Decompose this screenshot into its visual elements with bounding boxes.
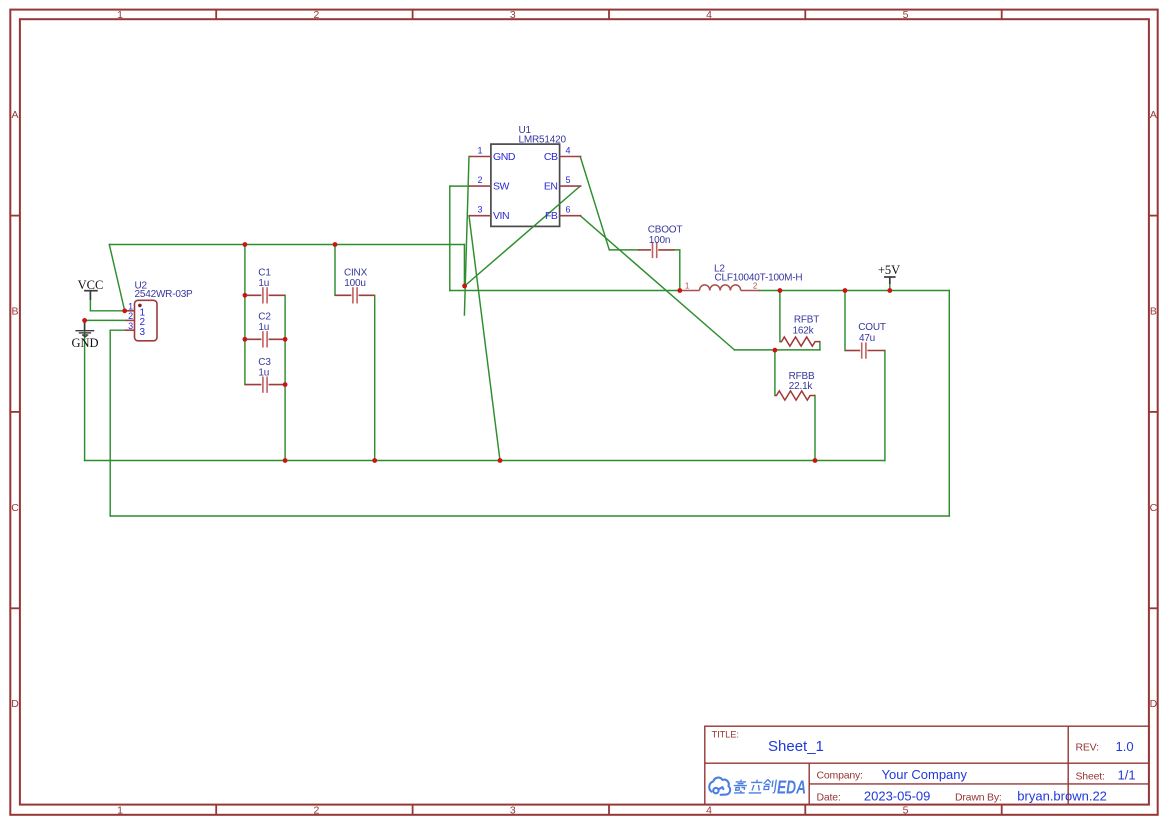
L2 pin number 1 [685, 281, 690, 290]
svg-text:2: 2 [128, 311, 133, 321]
svg-text:47u: 47u [859, 333, 875, 344]
svg-text:1: 1 [117, 9, 123, 21]
svg-text:VCC: VCC [78, 278, 104, 292]
svg-text:1: 1 [128, 301, 133, 311]
wire CINX left vertical [334, 245, 336, 296]
svg-text:Date:: Date: [817, 791, 841, 803]
U1 value label [519, 135, 567, 146]
svg-text:C1: C1 [258, 268, 271, 279]
wire COUT left vertical [844, 291, 846, 351]
svg-text:1: 1 [117, 805, 123, 817]
RFBT labels [793, 315, 820, 337]
svg-text:4: 4 [706, 805, 712, 817]
wire RFBB top vertical [774, 350, 776, 396]
svg-text:3: 3 [477, 205, 482, 215]
frame column numbers top [117, 9, 908, 21]
svg-text:C2: C2 [258, 312, 271, 323]
svg-text:GND: GND [493, 151, 516, 163]
frame row ticks right [1149, 216, 1158, 609]
U1 pin 6 FB stub [560, 215, 582, 217]
svg-text:Sheet:: Sheet: [1076, 770, 1105, 782]
frame column ticks top [216, 10, 1002, 20]
U2 pin names inside [140, 308, 146, 339]
svg-text:LMR51420: LMR51420 [519, 135, 567, 146]
svg-text:3: 3 [128, 321, 133, 331]
CINX labels [344, 268, 368, 290]
svg-text:COUT: COUT [858, 322, 886, 333]
junction CBOOT rail node [677, 288, 682, 293]
capacitor C2 [245, 331, 285, 347]
title block values blue [768, 738, 1136, 804]
wire right loop vertical [948, 291, 950, 517]
svg-text:GND: GND [71, 336, 98, 350]
wire diagonal node to EN pin [465, 186, 581, 286]
wire feedback horizontal [735, 349, 820, 351]
svg-text:5: 5 [565, 175, 570, 185]
wire diagonal rail to U2 pin1 [109, 245, 124, 311]
wire vertical rail stub to node [463, 245, 465, 287]
wire +5V stem [889, 283, 891, 291]
U2 pin1 marker dot [138, 304, 142, 308]
svg-text:4: 4 [565, 146, 570, 156]
L2 pin number 2 [753, 281, 758, 290]
svg-text:1.0: 1.0 [1116, 739, 1134, 754]
U2 pin 2 stub [126, 319, 135, 321]
wire GND to U2 pin2 [85, 319, 126, 321]
wire main output rail right [759, 290, 949, 292]
svg-text:C: C [11, 502, 19, 514]
wire RFBT top vertical [779, 291, 781, 342]
svg-text:1: 1 [685, 281, 690, 290]
svg-text:C: C [1150, 502, 1158, 514]
logo JLCEDA cloud [709, 778, 730, 795]
connector U2 body [135, 300, 158, 341]
wire main output rail left [450, 290, 681, 292]
junction RFBT rail node [778, 288, 783, 293]
junction U2 pin1 node [122, 308, 127, 313]
svg-text:2: 2 [313, 9, 319, 21]
svg-text:3: 3 [510, 9, 516, 21]
wire U2 pin3 horizontal [110, 329, 125, 331]
junction bottom rail C column [283, 458, 288, 463]
CBOOT labels [648, 225, 683, 247]
svg-text:1u: 1u [258, 278, 269, 289]
resistor RFBB [775, 391, 815, 400]
U1 pin 5 EN stub [560, 185, 582, 187]
GND text [71, 336, 98, 350]
svg-text:1: 1 [477, 146, 482, 156]
svg-text:CLF10040T-100M-H: CLF10040T-100M-H [715, 273, 803, 284]
svg-text:A: A [1150, 109, 1157, 121]
junction bottom rail CINX [372, 458, 377, 463]
svg-text:2: 2 [313, 805, 319, 817]
inductor L2 [680, 285, 760, 291]
junction C1 left [243, 293, 248, 298]
wire VCC top rail horizontal [109, 244, 464, 246]
U1 pin 3 VIN stub [469, 215, 491, 217]
wire steep diagonal from U1 pin1 [464, 157, 469, 316]
junction bottom rail diagonal [498, 458, 503, 463]
svg-text:6: 6 [565, 205, 570, 215]
U2 reference label [135, 281, 148, 292]
wire RFBB bottom drop [814, 396, 816, 461]
svg-text:Sheet_1: Sheet_1 [768, 738, 824, 755]
svg-text:100n: 100n [649, 235, 670, 246]
COUT labels [858, 322, 886, 344]
wire ground bottom rail [85, 460, 885, 462]
U1 pin 1 GND stub [469, 156, 491, 158]
wire SW vertical [449, 186, 451, 290]
svg-text:C3: C3 [258, 357, 271, 368]
junction C2 right [283, 337, 288, 342]
svg-text:2023-05-09: 2023-05-09 [864, 789, 931, 804]
capacitor CBOOT [638, 242, 675, 258]
RFBB labels [789, 371, 815, 392]
svg-text:EDA: EDA [777, 778, 806, 798]
svg-text:5: 5 [903, 9, 909, 21]
wire CINX right vertical [374, 295, 376, 460]
op-amp U1 body [491, 144, 560, 226]
capacitor C1 [245, 287, 285, 303]
U2 pin numbers outside [128, 301, 133, 331]
ground symbol GND [75, 321, 94, 337]
wire GND left vertical [84, 320, 86, 460]
junction top rail CINX [333, 242, 338, 247]
junction C2 left [243, 337, 248, 342]
wire bottom loop horizontal [110, 515, 949, 517]
frame column numbers bottom [117, 805, 908, 817]
wire VCC symbol drop [89, 300, 91, 311]
L2 reference label [714, 264, 725, 275]
U2 pin 3 stub [125, 329, 135, 331]
svg-text:1u: 1u [258, 368, 269, 379]
junction bottom rail RFBB [813, 458, 818, 463]
svg-text:VIN: VIN [493, 210, 509, 222]
frame column ticks bottom [216, 805, 1002, 815]
svg-text:162k: 162k [793, 326, 815, 337]
svg-text:2: 2 [477, 175, 482, 185]
wire C column left vertical [244, 245, 246, 385]
wire RFBT right drop [819, 342, 821, 350]
frame row letters left [11, 109, 19, 710]
svg-text:Company:: Company: [817, 770, 863, 782]
capacitor CINX [335, 287, 375, 303]
svg-text:1/1: 1/1 [1118, 768, 1136, 783]
title block frame [705, 726, 1149, 804]
frame row letters right [1150, 109, 1158, 710]
U2 pin 1 stub [125, 310, 135, 312]
svg-text:RFBT: RFBT [794, 315, 819, 326]
junction +5V rail node [887, 288, 892, 293]
U1 pin 4 CB stub [560, 156, 582, 158]
svg-text:1u: 1u [258, 322, 269, 333]
svg-text:bryan.brown.22: bryan.brown.22 [1017, 789, 1107, 804]
C3 labels [258, 357, 271, 379]
svg-text:CINX: CINX [344, 268, 368, 279]
wire CBOOT right corner [674, 250, 680, 291]
wire COUT right drop [884, 351, 886, 461]
svg-text:22.1k: 22.1k [789, 381, 814, 392]
C2 labels [258, 312, 271, 334]
svg-text:4: 4 [706, 9, 712, 21]
wire diagonal CB to CBOOT [580, 157, 609, 250]
U1 reference label [519, 125, 532, 136]
C1 labels [258, 268, 271, 290]
U1 pin names [493, 151, 558, 222]
svg-text:2542WR-03P: 2542WR-03P [135, 289, 194, 300]
VCC text [78, 278, 104, 292]
svg-text:FB: FB [545, 210, 558, 222]
svg-text:CB: CB [544, 151, 558, 163]
junction VIN node [462, 284, 467, 289]
svg-text:D: D [11, 698, 19, 710]
svg-text:3: 3 [510, 805, 516, 817]
wire CBOOT left horizontal [609, 249, 638, 251]
wire SW horizontal [450, 185, 469, 187]
VCC power symbol [84, 291, 98, 300]
U1 pin numbers [477, 146, 570, 215]
svg-text:TITLE:: TITLE: [712, 730, 739, 741]
wire U2 pin3 vertical [109, 330, 111, 516]
svg-text:B: B [1150, 306, 1157, 318]
logo JLCEDA EDA text [777, 778, 806, 798]
svg-text:CBOOT: CBOOT [648, 225, 683, 236]
capacitor C3 [245, 377, 285, 393]
svg-text:B: B [11, 306, 18, 318]
+5V power symbol [884, 277, 896, 284]
capacitor COUT [845, 342, 885, 358]
svg-text:3: 3 [140, 327, 146, 338]
frame row ticks left [10, 216, 20, 609]
wire steep diagonal from U1 pin3 to ground rail [469, 216, 500, 461]
+5V text [878, 263, 900, 277]
wire VCC to U2 pin1 [90, 310, 124, 312]
title block texts maroon [712, 730, 1105, 804]
U2 value label [135, 289, 194, 300]
svg-text:100u: 100u [344, 278, 365, 289]
junction C3 right [283, 382, 288, 387]
junction GND node [82, 318, 87, 323]
junction COUT rail node [843, 288, 848, 293]
wire diagonal FB to feedback node [580, 216, 734, 350]
logo JLCEDA chinese text 嘉立创 [733, 779, 777, 793]
svg-text:EN: EN [544, 181, 558, 193]
svg-text:A: A [11, 109, 18, 121]
svg-text:+5V: +5V [878, 263, 900, 277]
svg-text:Your Company: Your Company [882, 767, 968, 782]
wire C column right vertical [284, 295, 286, 460]
junction top rail C column [243, 242, 248, 247]
svg-text:SW: SW [493, 181, 510, 193]
L2 value label [715, 273, 803, 284]
svg-text:Drawn By:: Drawn By: [955, 791, 1002, 803]
svg-text:5: 5 [903, 805, 909, 817]
svg-text:D: D [1150, 698, 1158, 710]
junction feedback node [773, 348, 778, 353]
svg-text:REV:: REV: [1076, 741, 1099, 753]
resistor RFBT [780, 337, 820, 346]
U1 pin 2 SW stub [469, 185, 491, 187]
